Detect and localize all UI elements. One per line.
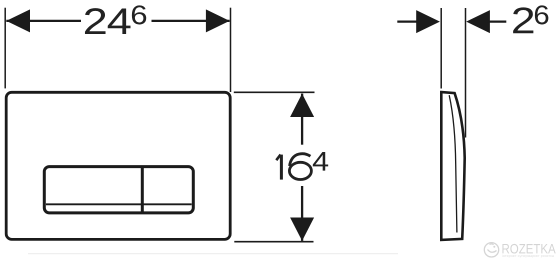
faint horizontal artifact line [28,253,398,255]
dimension 164: bottom extension line [234,241,313,243]
dimension 246: right arrowhead [206,9,230,32]
dimension 164: top arrowhead [290,94,314,117]
flush plate outline (front view) [6,92,230,239]
dimension 246: value label 24 [85,8,106,34]
dimension 246: dimension line right segment [152,20,230,22]
dimension 164: top extension line [234,91,315,93]
dimension 26: value label 2 [513,7,533,33]
dimension 164: superscript 4 [313,152,328,171]
button step line [46,203,192,205]
dimension 26: dimension line right segment [487,20,506,22]
dimension 26: superscript 6 [535,5,548,24]
dimension 164: dimension line lower segment [301,186,303,241]
dimension 164: bottom arrowhead [290,218,314,241]
dimension 246: left extension line [4,8,6,89]
side profile outline [441,92,464,240]
side profile inner face line [449,95,457,232]
button divider [141,167,144,213]
dimension 26: left extension line [440,8,442,89]
dimension 246: superscript 6 [132,5,146,24]
dimension 26: dimension line left segment [397,20,420,22]
watermark tagline [502,254,554,257]
dimension 246: right extension line [230,8,232,92]
watermark wordmark ROZETKA [502,244,555,254]
dimension 26: right arrowhead pointing left [466,10,490,33]
dimension 26: left arrowhead pointing right [416,10,440,33]
watermark logo circle [484,243,498,257]
dimension 246: dimension line left segment [6,20,81,22]
dimension 246: left arrowhead [6,9,30,32]
button frame [44,167,193,213]
dimension 164: value label 16 [280,155,283,180]
dimension 164: dimension line upper segment [301,94,303,145]
dimension 26: right extension line [465,8,467,138]
